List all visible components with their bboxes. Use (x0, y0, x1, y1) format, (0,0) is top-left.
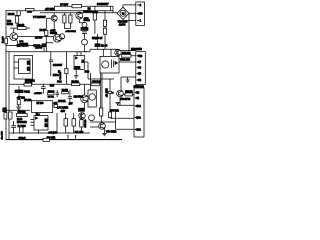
resistor R18 (103, 28, 106, 34)
resistor R11 (63, 15, 66, 23)
motor M1 (120, 10, 126, 16)
box A2 (32, 101, 53, 113)
wire (46, 13, 54, 31)
resistor R1 (5, 38, 8, 44)
IC U1 (19, 59, 31, 74)
resistor R44 (109, 91, 112, 93)
wire (10, 27, 30, 29)
wire top bus V+ (55, 6, 114, 10)
ground (115, 103, 120, 106)
connector X3 (134, 88, 144, 137)
wire bottom border (6, 139, 122, 141)
resistor R31 (64, 119, 68, 126)
transistor VT8 (99, 123, 106, 130)
svg-text:KPS40A2: KPS40A2 (17, 121, 27, 124)
ground (126, 77, 130, 82)
pin 1 (135, 97, 137, 99)
wire (3, 109, 30, 111)
wire bottom bus (9, 132, 90, 134)
resistor R21 (91, 83, 99, 86)
wire stub (15, 11, 20, 16)
wire (64, 13, 70, 29)
wire (97, 34, 99, 49)
diode D9 (79, 108, 85, 111)
transistor VT3 (53, 34, 61, 42)
connector X1 (136, 2, 145, 25)
wire (46, 36, 64, 52)
fuse F1 (3, 108, 7, 112)
node junction (13, 132, 14, 133)
fuse F2 (26, 9, 35, 11)
pin 2B (135, 116, 137, 118)
resistor R52 (125, 93, 133, 96)
opto U3 (102, 61, 109, 68)
wire (14, 62, 19, 68)
relay box K1 (14, 56, 33, 80)
transistor VT6 (81, 95, 89, 103)
resistor R9 (72, 83, 80, 86)
svg-text:C.R 500: C.R 500 (60, 71, 62, 79)
wire (123, 93, 134, 95)
svg-text:4.5V: 4.5V (61, 110, 66, 113)
resistor R9b (62, 92, 69, 94)
IC U5 (34, 116, 48, 130)
diode D4 (81, 27, 88, 30)
pin 10 (137, 55, 139, 57)
svg-text:R8 T.A: R8 T.A (48, 95, 55, 98)
capacitor C11 (55, 90, 59, 97)
svg-text:9.71R: 9.71R (7, 23, 13, 26)
wire (90, 127, 104, 133)
wire (77, 52, 81, 56)
ground (102, 133, 107, 135)
pin 2C (135, 128, 137, 130)
capacitor C6 (15, 90, 23, 93)
IC U2 (74, 55, 84, 69)
resistor R15 (103, 20, 106, 26)
svg-text:+VT5 GT31: +VT5 GT31 (65, 31, 76, 33)
transistor VT7 (79, 113, 85, 119)
diode D1 (28, 11, 32, 13)
pin 2A (135, 105, 137, 107)
resistor R32 (72, 119, 76, 126)
resistor R33 (80, 120, 84, 127)
opto box U3 (100, 56, 119, 73)
lamp H1 (82, 22, 87, 27)
resistor R8b (65, 69, 68, 74)
wire (90, 112, 134, 129)
svg-text:PL63: PL63 (17, 119, 23, 121)
transistor VT52 (115, 49, 121, 55)
wire (118, 56, 136, 62)
svg-text:LPT A/T3R: LPT A/T3R (57, 106, 68, 109)
wire (103, 49, 118, 56)
wire (30, 113, 57, 133)
wire lower-left rail (9, 83, 91, 85)
pin marks U1 (27, 61, 30, 65)
capacitor C1 (17, 44, 20, 47)
resistor R3 (18, 27, 27, 30)
lamp H2 (82, 39, 88, 45)
svg-text:A2006: A2006 (119, 23, 126, 26)
svg-text:R7 100: R7 100 (37, 103, 45, 105)
pin A10 (137, 12, 139, 14)
transistor VT55 (117, 90, 124, 97)
pin 2 (135, 91, 137, 93)
resistor R53 (122, 54, 131, 57)
wire (118, 97, 135, 106)
wire (16, 11, 18, 28)
pin 4 (137, 79, 139, 81)
resistor R8 (45, 30, 48, 35)
svg-text:B1 4.5: B1 4.5 (101, 44, 108, 47)
resistor R2 (15, 16, 18, 23)
resistor R12 (69, 15, 72, 23)
capacitor C7 (11, 121, 16, 133)
svg-text:VT52 GT8: VT52 GT8 (120, 59, 131, 61)
svg-text:2A: 2A (138, 117, 141, 120)
wire mid bus (6, 49, 118, 52)
svg-text:LP9 D/L: LP9 D/L (58, 101, 67, 103)
transistor VT4 (76, 12, 83, 19)
wire right feed (128, 13, 130, 50)
ground (74, 70, 78, 79)
transistor VT5 (59, 34, 64, 39)
svg-text:N 502: N 502 (53, 75, 59, 77)
svg-text:VT8 GT#R: VT8 GT#R (106, 132, 117, 134)
resistor R28 (20, 127, 24, 133)
wire (95, 6, 105, 34)
motor box M2 (88, 90, 96, 107)
connector X2 (136, 52, 146, 85)
wire (18, 86, 20, 100)
resistor R46 (99, 108, 102, 116)
svg-text:CT6 A20: CT6 A20 (84, 120, 87, 129)
svg-text:+C9 (C30: +C9 (C30 (48, 133, 58, 135)
wire (84, 62, 90, 79)
resistor R22 (24, 83, 32, 86)
pin 1 (137, 20, 139, 22)
svg-text:C1 500: C1 500 (35, 46, 43, 49)
svg-text:7N4005A: 7N4005A (83, 10, 92, 13)
wire (100, 116, 102, 123)
wire (66, 113, 82, 133)
wire inner border (8, 52, 10, 140)
svg-text:R1 500: R1 500 (35, 37, 43, 40)
svg-text:R7 10R: R7 10R (24, 100, 32, 102)
resistor R23 (48, 93, 54, 95)
wire (6, 28, 53, 44)
svg-text:+T7 5.5V: +T7 5.5V (45, 8, 54, 11)
wire (43, 47, 45, 52)
diode D2 (42, 44, 46, 47)
capacitor C4 (49, 52, 53, 76)
wire left border (5, 10, 7, 140)
svg-text:DG/MGMT: DG/MGMT (97, 3, 109, 6)
transistor VT2 (51, 15, 57, 21)
wire (84, 84, 86, 108)
svg-text:C6.21: C6.21 (24, 92, 30, 94)
resistor R16 (72, 4, 82, 7)
node junction (78, 51, 79, 52)
resistor R26 (4, 113, 7, 120)
wire (121, 50, 136, 52)
svg-text:R1 100: R1 100 (2, 36, 4, 43)
svg-text:17N5000R: 17N5000R (134, 87, 145, 89)
wire (123, 5, 136, 21)
resistor R45 (109, 112, 112, 118)
svg-text:+VT5GT: +VT5GT (34, 93, 42, 95)
capacitor C10 (41, 84, 46, 93)
transistor VT9 (89, 115, 95, 121)
svg-text:VT NGT53T: VT NGT53T (33, 16, 46, 19)
wire (111, 6, 113, 13)
resistor R7a (17, 100, 20, 105)
transistor VT1 (10, 33, 18, 41)
svg-text:+B+ 0.5A: +B+ 0.5A (0, 131, 3, 140)
svg-text:R2 2R: R2 2R (8, 13, 15, 16)
svg-text:2A: 2A (138, 105, 141, 108)
capacitor C16 (68, 90, 72, 105)
ground (16, 105, 21, 110)
svg-text:GT310: GT310 (84, 20, 91, 22)
resistor R30 (43, 138, 50, 141)
wire row (6, 45, 46, 47)
pin 2 (137, 4, 139, 6)
pin 7 (137, 61, 139, 63)
svg-text:C-B 500T: C-B 500T (53, 65, 63, 67)
node junction (46, 42, 47, 43)
bridge rectifier VD1 (117, 7, 129, 19)
wire (68, 136, 76, 140)
pin 5 (137, 72, 139, 74)
wire (91, 73, 114, 112)
wire main top rail (6, 10, 113, 12)
svg-text:2A: 2A (138, 129, 141, 132)
svg-text:VT8 GTY8: VT8 GTY8 (120, 99, 131, 101)
wire (65, 52, 67, 85)
capacitor C3 (82, 32, 87, 34)
pin 3 (137, 66, 139, 68)
svg-text:97 5.0V: 97 5.0V (60, 4, 68, 7)
svg-text:R31 4R3: R31 4R3 (75, 131, 84, 134)
resistor R24 (54, 105, 58, 108)
wire (79, 12, 84, 52)
wire second rail (40, 12, 117, 14)
wire (121, 77, 136, 90)
svg-text:MT8:B8/T8: MT8:B8/T8 (131, 49, 143, 51)
svg-text:C1 500: C1 500 (21, 45, 29, 48)
wire (104, 13, 106, 50)
svg-text:KPS40A2: KPS40A2 (25, 80, 35, 83)
resistor R27 (17, 113, 28, 116)
resistor R29 (9, 112, 12, 119)
motor M2 (89, 94, 95, 100)
diode D8 (95, 44, 100, 47)
svg-text:MOT OP: MOT OP (105, 89, 107, 98)
resistor R14 (93, 13, 96, 20)
